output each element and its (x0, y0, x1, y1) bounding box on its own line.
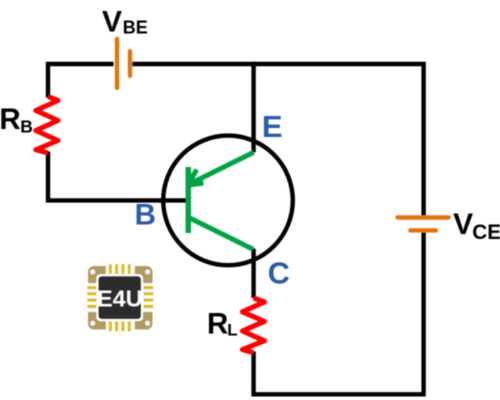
E4U logo pins top (109, 264, 131, 274)
battery VBE short plate (128, 51, 132, 76)
battery VCE long plate (398, 215, 449, 219)
wire emitter vertical (251, 62, 255, 153)
resistor RL (242, 298, 264, 353)
battery VCE short plate (410, 228, 435, 232)
svg-text:V: V (102, 6, 122, 39)
svg-text:E4U: E4U (97, 286, 143, 312)
E4U logo inner chip (96, 274, 143, 321)
wire top-left segment (48, 64, 114, 98)
E4U logo corner holes (90, 270, 150, 326)
battery VBE long plate (115, 39, 119, 88)
transistor base bar (186, 167, 192, 233)
svg-text:C: C (268, 256, 290, 290)
svg-text:L: L (227, 320, 237, 339)
E4U logo chip body (85, 263, 156, 333)
svg-text:R: R (0, 103, 21, 136)
wire top-right segment (133, 64, 424, 215)
transistor circle Q1 (163, 136, 293, 266)
svg-text:CE: CE (472, 221, 500, 244)
emitter arrowhead (187, 170, 203, 186)
svg-text:B: B (135, 199, 156, 232)
transistor emitter line (189, 152, 254, 184)
E4U logo pins bottom (109, 322, 131, 332)
svg-text:BE: BE (123, 17, 148, 37)
resistor RB (36, 97, 58, 154)
svg-text:V: V (453, 208, 473, 241)
transistor collector line (189, 218, 253, 250)
wire collector vertical (251, 249, 255, 298)
svg-text:R: R (207, 307, 228, 340)
wire left lower vertical + base horizontal (48, 152, 188, 201)
svg-text:E: E (262, 109, 283, 144)
E4U logo pins right (144, 286, 154, 308)
E4U logo pins left (87, 286, 97, 308)
wire bottom from RL to right battery (254, 233, 424, 395)
svg-text:B: B (20, 117, 33, 137)
